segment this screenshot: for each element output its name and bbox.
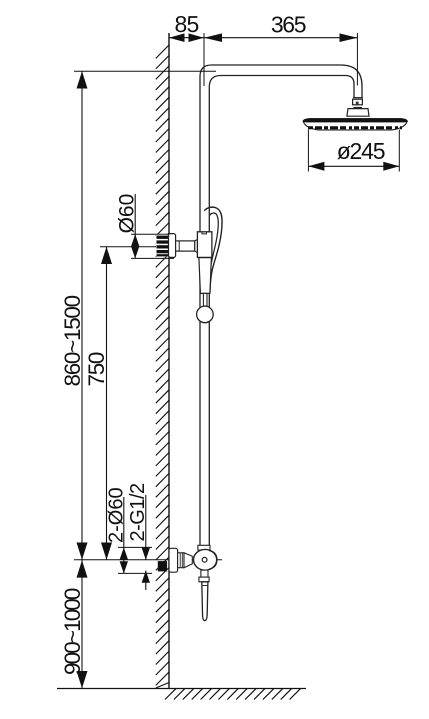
valve top tab — [203, 550, 208, 553]
svg-text:2-G1/2: 2-G1/2 — [127, 483, 149, 542]
shower head connector ring — [353, 97, 363, 99]
valve cone — [184, 553, 192, 568]
wall bracket cone — [195, 238, 200, 254]
dimension o245 right extension — [398, 130, 400, 172]
dimension 860~1500 line — [81, 71, 83, 560]
dimension 2-O60 up arrow — [120, 547, 128, 559]
valve inlet black square — [158, 561, 167, 571]
dimension 2-G1/2 line lower — [145, 571, 147, 590]
hand shower ball joint — [197, 306, 214, 323]
dimension O60 down arrow — [131, 246, 139, 258]
valve lever nut — [199, 577, 209, 582]
wall face line — [168, 33, 170, 689]
dimension O60 up arrow — [131, 234, 139, 246]
shower head knurl band — [353, 107, 362, 109]
shower head cone mount — [347, 109, 369, 117]
dimension 2-O60 line — [123, 497, 125, 573]
dimension 2-G1/2 up arrow — [142, 571, 150, 583]
node: extension line head connector — [356, 33, 358, 86]
node: extension line top (arm centerline level) — [74, 70, 216, 72]
dimension 2-O60 top extension — [118, 546, 152, 548]
dimension 750 line — [106, 247, 108, 560]
svg-text:365: 365 — [271, 12, 306, 38]
shower head disc rim (top) — [303, 118, 408, 122]
dimension 750 bottom arrow — [101, 543, 112, 560]
dimension o245 left arrow — [308, 162, 324, 171]
dimension 900~1000 bottom arrow — [77, 671, 88, 688]
dimension 860~1500 top arrow — [77, 71, 88, 88]
slider clamp block — [197, 232, 212, 258]
dimension 2-O60 bottom extension — [118, 572, 152, 574]
svg-text:900~1000: 900~1000 — [60, 588, 85, 675]
wall bracket knurl — [156, 235, 169, 257]
dimension 2-G1/2 down arrow — [142, 548, 150, 560]
svg-text:860~1500: 860~1500 — [60, 295, 85, 386]
shower head nozzle band — [308, 126, 402, 129]
slider clamp notch — [202, 232, 207, 234]
dimension 85 right arrow — [189, 33, 205, 42]
dimension 85 left arrow — [169, 33, 185, 42]
dimension 900~1000 line — [81, 560, 83, 689]
ground hatching — [165, 689, 300, 700]
valve top nut — [198, 545, 210, 550]
dimension O60 line — [134, 194, 136, 258]
dimension o245 left extension — [307, 130, 309, 172]
svg-text:85: 85 — [175, 11, 199, 37]
valve center cap — [202, 557, 207, 562]
hand shower hook outer — [204, 207, 222, 292]
valve bottom stem — [201, 570, 208, 577]
wire: riser pipe outer contour — [200, 65, 362, 546]
dimension O60 top extension — [131, 233, 174, 235]
valve eccentric nut — [178, 553, 184, 568]
dimension 750 top arrow — [101, 247, 112, 264]
wire: riser pipe inner contour — [209, 76, 354, 547]
dimension 365 right arrow — [340, 33, 358, 42]
dimension 900~1000 top arrow — [77, 560, 88, 577]
ground line — [57, 688, 306, 690]
dimension 365 line — [204, 37, 358, 39]
valve escutcheon — [169, 548, 178, 572]
dimension O60 bottom extension — [131, 257, 174, 259]
hand shower handle — [199, 258, 212, 294]
wall bracket arm cylinder — [176, 241, 195, 251]
hand shower hook inner — [210, 213, 219, 267]
valve lever handle — [202, 582, 208, 621]
valve body — [194, 549, 217, 570]
dimension 365 left arrow — [204, 33, 222, 42]
svg-text:Ø60: Ø60 — [115, 194, 138, 234]
node: extension line pipe center top — [203, 33, 205, 86]
wall hatching — [156, 45, 169, 688]
shower head connector nut — [353, 99, 363, 105]
dimension o245 right arrow — [383, 162, 399, 171]
node: bracket centerline — [100, 246, 202, 248]
dimension o245 line — [308, 165, 399, 167]
shower head dish body — [303, 122, 407, 130]
dimension 2-G1/2 line upper — [145, 495, 147, 560]
svg-text:2-Ø60: 2-Ø60 — [106, 487, 128, 543]
dimension 2-O60 down arrow — [120, 561, 128, 573]
dimension 85 line — [169, 37, 204, 39]
valve centerline — [74, 559, 222, 561]
wall bracket flange — [169, 234, 176, 258]
svg-text:750: 750 — [84, 352, 109, 386]
hand shower hose neck — [203, 293, 207, 306]
svg-text:ø245: ø245 — [337, 138, 385, 164]
dimension 860~1500 bottom arrow — [77, 543, 88, 560]
